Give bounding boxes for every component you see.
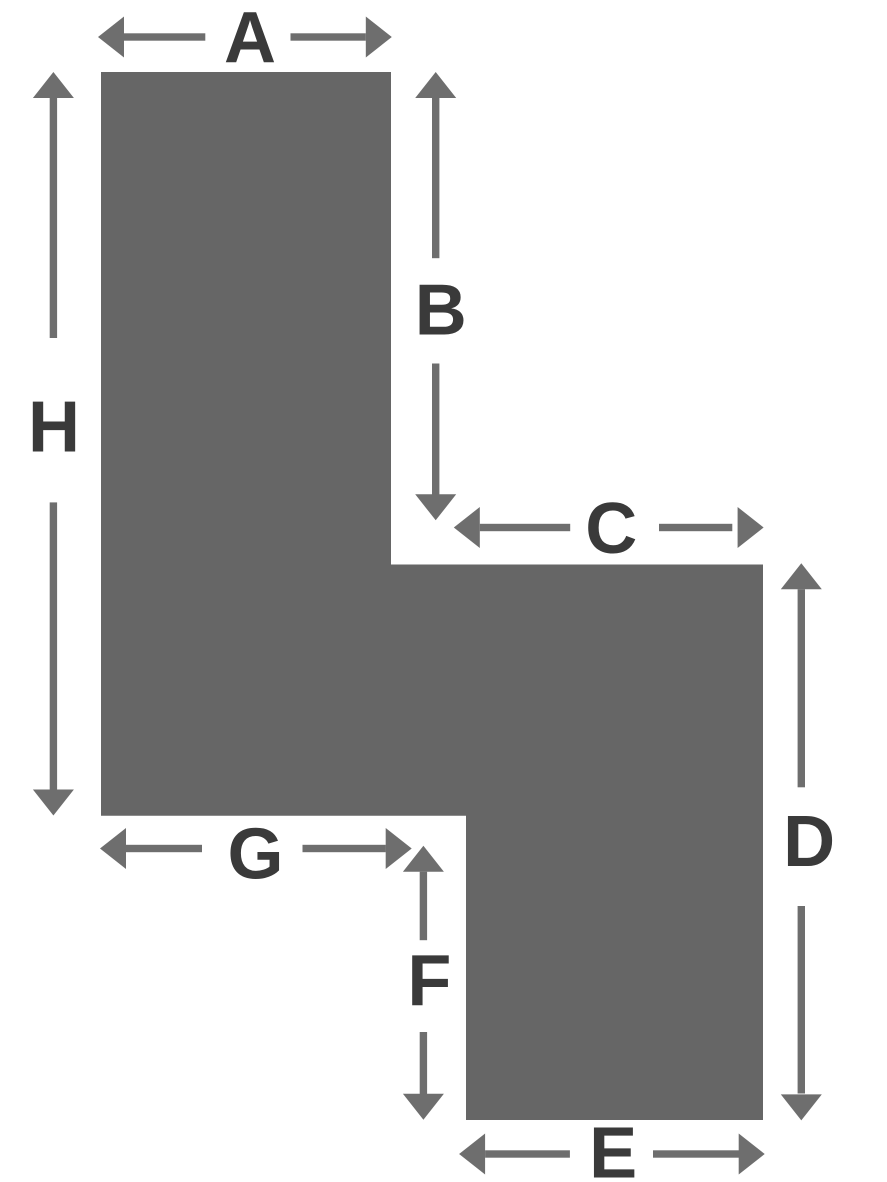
- dimension arrow H (left full height): [33, 72, 74, 816]
- dimension arrow A (top width): [98, 17, 392, 58]
- label G: [227, 814, 283, 894]
- dimension arrow F (lower inner height): [403, 846, 444, 1120]
- dimension arrow D (right height): [781, 563, 822, 1120]
- label D: [783, 802, 835, 882]
- svg-text:D: D: [783, 802, 835, 882]
- svg-text:A: A: [224, 0, 276, 78]
- dimension arrow C (middle width): [454, 507, 764, 548]
- label F: [407, 941, 451, 1021]
- label C: [585, 489, 637, 569]
- svg-text:F: F: [407, 941, 451, 1021]
- label H: [28, 387, 80, 467]
- dimension arrow E (bottom width): [459, 1134, 765, 1175]
- svg-text:C: C: [585, 489, 637, 569]
- Z-shaped gray plate: [101, 72, 763, 1120]
- label E: [589, 1113, 637, 1182]
- svg-text:B: B: [415, 271, 467, 351]
- svg-text:H: H: [28, 387, 80, 467]
- label B: [415, 271, 467, 351]
- svg-text:G: G: [227, 814, 283, 894]
- dimension arrow G (lower left width): [100, 828, 412, 869]
- label A: [224, 0, 276, 78]
- dimension arrow B (upper right height): [415, 72, 456, 520]
- svg-text:E: E: [589, 1113, 637, 1182]
